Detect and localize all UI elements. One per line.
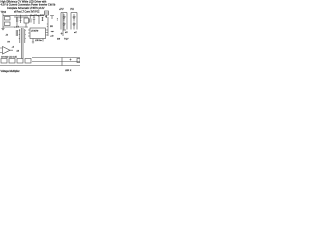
IC U1 body	[30, 28, 46, 39]
plus mark below box	[45, 16, 47, 18]
wire transformer down	[22, 44, 24, 59]
box inner line	[45, 12, 49, 14]
rail tick vertical	[61, 62, 63, 66]
label J4	[6, 26, 78, 44]
doubler cell 2 right line	[76, 13, 78, 30]
transformer T1 left winding	[19, 29, 20, 43]
IC bottom pin 2	[42, 39, 44, 42]
wire right bus vertical	[62, 13, 64, 36]
wire lower rail	[3, 26, 28, 28]
resistor R3 vertical	[20, 15, 22, 23]
svg-text:Voltage Multiplier: Voltage Multiplier	[1, 70, 20, 73]
ground	[2, 28, 5, 30]
svg-text:aC: aC	[74, 32, 77, 34]
label +d top	[1, 47, 20, 59]
capacitor C3 small	[33, 15, 35, 22]
svg-text:LT3579: LT3579	[31, 31, 39, 33]
wire second rail	[14, 16, 28, 18]
svg-text:3R: 3R	[50, 26, 53, 28]
capacitor C2 box	[24, 18, 29, 23]
svg-text:4.5V & Current Conversion Powe: 4.5V & Current Conversion Power Inverter…	[1, 4, 56, 7]
rail 3	[0, 65, 80, 67]
pin tick marks	[47, 24, 48, 27]
svg-text:30f: 30f	[57, 39, 60, 41]
rail tick vertical upper	[61, 58, 63, 62]
numbers text under rail	[14, 27, 20, 29]
doubler cell 2 top	[71, 12, 77, 14]
IC U1 label	[31, 31, 39, 33]
wire bus tick	[63, 29, 66, 31]
resistor R4 mid	[42, 17, 44, 21]
svg-text:L35 8a: L35 8a	[35, 40, 42, 42]
diode D1	[63, 14, 65, 21]
svg-text:Complete Schematic LT3579 y3.3: Complete Schematic LT3579 y3.3V	[7, 7, 45, 10]
box B3	[17, 59, 23, 64]
doubler cell 1 right line	[66, 13, 68, 30]
svg-text:PU: PU	[71, 8, 75, 11]
wire left vertical	[2, 14, 4, 29]
IC bottom pin 1	[32, 39, 34, 43]
title text line 1	[1, 1, 56, 14]
IC U1 pins right	[46, 30, 49, 35]
transformer T1 right winding	[25, 29, 26, 43]
wire top rail	[3, 14, 44, 16]
svg-text:LER K: LER K	[65, 70, 72, 72]
svg-text:+PV: +PV	[59, 8, 64, 11]
diode D2	[63, 22, 65, 30]
wire pin bus vertical	[47, 17, 49, 36]
rail 1	[32, 57, 80, 59]
svg-text:TP34: TP34	[1, 12, 7, 14]
wire drop x39	[38, 15, 40, 22]
capacitor C5 top mid	[50, 16, 54, 20]
svg-text:+w-: +w-	[51, 31, 55, 33]
node +PV label	[1, 8, 75, 17]
box B4	[25, 59, 31, 64]
diode D3	[73, 14, 75, 21]
doubler cell 1 left line	[60, 13, 62, 30]
diode D4	[73, 22, 75, 30]
box B1	[1, 59, 7, 64]
op-amp input wires	[0, 48, 13, 53]
resistor R2 box	[5, 22, 11, 26]
box B2	[9, 59, 15, 64]
junction dots	[16, 15, 40, 28]
resistor R1 box	[5, 17, 11, 21]
connector box right edge	[77, 59, 80, 63]
capacitor C1 bars	[16, 17, 18, 22]
rail 2	[32, 61, 80, 63]
plus mark mid right	[61, 33, 63, 35]
svg-text:af Rea LT Conv 3V5 PJC: af Rea LT Conv 3V5 PJC	[14, 12, 40, 14]
transformer T1 core	[22, 28, 24, 44]
capacitor C4 left of transformer	[16, 30, 17, 36]
capacitor C6 mid	[30, 15, 32, 22]
plus output mark	[70, 59, 72, 61]
junction dots mid right	[56, 18, 59, 20]
doubler cell 2 left line	[70, 13, 72, 30]
IC value label below	[35, 40, 42, 42]
op-amp U2	[3, 47, 11, 55]
box top mid-right	[45, 11, 49, 15]
IC bottom pin ground	[32, 42, 34, 43]
doubler cell 1 top	[61, 12, 67, 14]
caption voltage multiplier	[1, 70, 72, 73]
wire below box	[46, 15, 48, 18]
svg-text:TQV: TQV	[64, 39, 69, 41]
IC U1 pins left	[28, 30, 30, 36]
stub wires to lower rail	[17, 22, 39, 27]
